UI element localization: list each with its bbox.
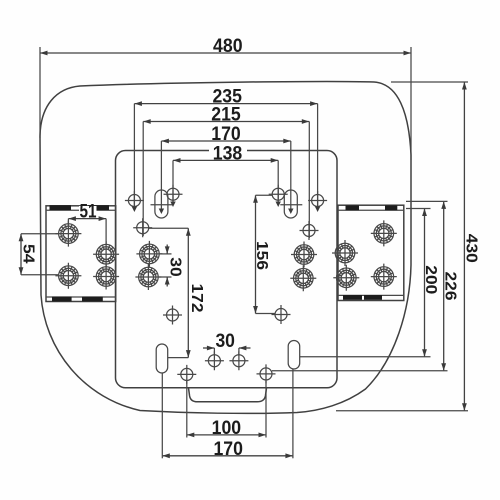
svg-text:51: 51 — [80, 201, 97, 223]
svg-text:100: 100 — [212, 417, 242, 439]
svg-text:54: 54 — [19, 244, 36, 264]
svg-text:138: 138 — [213, 142, 243, 164]
svg-text:480: 480 — [213, 35, 243, 57]
svg-text:430: 430 — [462, 234, 479, 263]
svg-text:156: 156 — [253, 241, 270, 270]
svg-text:200: 200 — [422, 265, 439, 294]
svg-text:226: 226 — [441, 272, 458, 301]
svg-text:30: 30 — [167, 257, 184, 277]
svg-text:170: 170 — [213, 438, 243, 460]
svg-text:30: 30 — [215, 330, 235, 352]
svg-text:172: 172 — [188, 284, 205, 313]
